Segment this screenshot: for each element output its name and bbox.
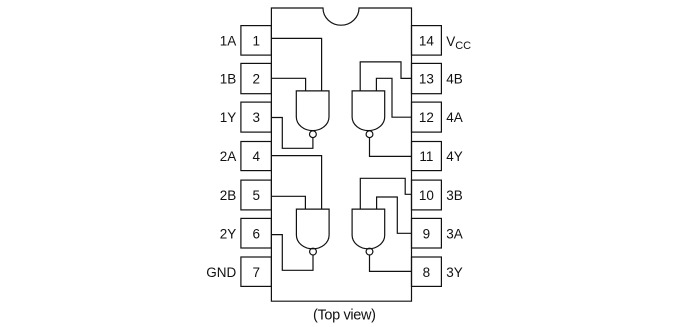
svg-text:2Y: 2Y <box>220 226 237 241</box>
svg-text:1B: 1B <box>220 72 237 87</box>
svg-text:4Y: 4Y <box>446 149 463 164</box>
svg-text:4A: 4A <box>446 110 463 125</box>
svg-text:GND: GND <box>206 265 236 280</box>
svg-text:3: 3 <box>252 110 260 125</box>
svg-text:2B: 2B <box>220 188 237 203</box>
svg-text:1Y: 1Y <box>220 110 237 125</box>
svg-text:13: 13 <box>419 72 434 87</box>
svg-text:6: 6 <box>252 226 260 241</box>
svg-text:3Y: 3Y <box>446 265 463 280</box>
svg-text:VCC: VCC <box>446 34 471 52</box>
svg-text:9: 9 <box>423 226 431 241</box>
svg-text:7: 7 <box>252 265 260 280</box>
svg-text:14: 14 <box>419 34 435 49</box>
svg-text:2A: 2A <box>220 149 237 164</box>
svg-text:8: 8 <box>423 265 431 280</box>
svg-text:10: 10 <box>419 188 434 203</box>
svg-text:1A: 1A <box>220 34 237 49</box>
svg-text:5: 5 <box>252 188 260 203</box>
svg-text:3A: 3A <box>446 226 463 241</box>
svg-text:4: 4 <box>252 149 260 164</box>
svg-text:3B: 3B <box>446 188 463 203</box>
svg-text:1: 1 <box>252 34 260 49</box>
svg-text:11: 11 <box>419 149 433 164</box>
svg-text:2: 2 <box>252 72 260 87</box>
svg-text:4B: 4B <box>446 72 463 87</box>
svg-text:12: 12 <box>419 110 434 125</box>
svg-text:(Top view): (Top view) <box>313 307 376 323</box>
